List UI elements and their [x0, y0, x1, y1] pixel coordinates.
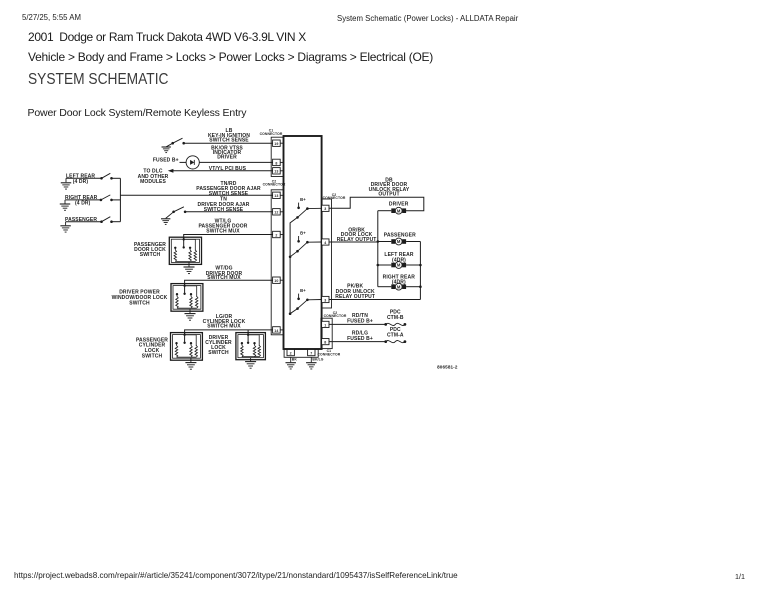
svg-text:M: M [397, 263, 401, 268]
ground passenger switch [65, 222, 67, 226]
passenger door lock switch [169, 237, 201, 264]
connector C1 bottom outline [284, 349, 318, 357]
svg-text:SWITCH: SWITCH [208, 350, 229, 356]
svg-text:(4 DR): (4 DR) [73, 179, 89, 185]
wire BK/OR VTSS indicator driver [199, 161, 272, 163]
wire WT/LG passenger door switch mux [184, 235, 273, 240]
print footer url [14, 571, 458, 580]
svg-text:CONNECTOR: CONNECTOR [324, 314, 347, 318]
pin 8 C2 right [322, 339, 329, 345]
pin 3 C2 right [322, 205, 329, 211]
svg-text:SWITCH MUX: SWITCH MUX [207, 324, 241, 330]
pin 2 bottom [287, 350, 294, 356]
svg-text:SWITCH: SWITCH [129, 301, 150, 307]
svg-text:CONNECTOR: CONNECTOR [317, 353, 340, 357]
wire LB key-in ignition switch sense [184, 142, 273, 144]
wire RD/TN fused B+ [329, 323, 386, 325]
svg-text:SWITCH MUX: SWITCH MUX [206, 229, 240, 235]
pin 4 C2 right [322, 239, 329, 245]
ground driver door ajar switch [166, 212, 174, 219]
svg-text:2: 2 [275, 233, 277, 237]
svg-text:12: 12 [274, 211, 278, 215]
ground right rear switch [64, 200, 66, 204]
driver power window/door lock switch [171, 284, 203, 312]
svg-text:SWITCH: SWITCH [142, 354, 163, 360]
svg-text:1: 1 [324, 323, 326, 327]
svg-text:FUSED B+: FUSED B+ [347, 319, 373, 325]
diagram subtitle [28, 107, 247, 119]
motor passenger door lock [378, 241, 392, 243]
svg-text:14: 14 [274, 329, 278, 333]
svg-text:10: 10 [274, 279, 278, 283]
svg-text:8: 8 [275, 161, 277, 165]
wire LG/OR cylinder lock switch mux [185, 330, 273, 335]
connector C2 right outline upper [322, 199, 332, 308]
connector C2 left outline [271, 190, 283, 335]
svg-text:VT/YL PCI BUS: VT/YL PCI BUS [209, 166, 247, 172]
pin 19 [273, 140, 281, 146]
wire TN driver door ajar switch sense [185, 211, 273, 213]
svg-text:B+: B+ [300, 197, 306, 202]
svg-text:2: 2 [290, 352, 292, 356]
svg-text:BK/LG: BK/LG [312, 358, 323, 362]
svg-text:CTM-B: CTM-B [387, 315, 404, 321]
wire BK ground [290, 357, 292, 362]
wire DB driver door unlock relay output [329, 197, 424, 210]
wire motor left bus [377, 211, 379, 287]
motor left rear door lock [378, 264, 392, 266]
module central timer module [284, 136, 322, 349]
svg-text:FUSED B+: FUSED B+ [153, 158, 179, 164]
svg-text:DRIVER: DRIVER [389, 202, 409, 208]
print header date [22, 13, 81, 22]
svg-text:3: 3 [324, 298, 326, 302]
ground driver power window/door lock switch [189, 309, 191, 313]
svg-text:SWITCH: SWITCH [140, 252, 161, 258]
pin 1 C2 right [322, 321, 329, 327]
wire TN/RD to pin 13 C2 [120, 194, 272, 196]
svg-text:M: M [397, 208, 401, 213]
switch key-in ignition [171, 142, 174, 145]
svg-text:M: M [397, 239, 401, 244]
svg-text:13: 13 [274, 170, 278, 174]
wire WT/DG driver door switch mux [185, 280, 273, 285]
svg-text:(4 DR): (4 DR) [75, 201, 91, 207]
pin 7 bottom [308, 350, 315, 356]
svg-text:M: M [397, 284, 401, 289]
ground module BK/LG [306, 362, 316, 364]
svg-text:SWITCH SENSE: SWITCH SENSE [209, 191, 249, 197]
switch driver door ajar [172, 211, 175, 214]
motor driver door lock [378, 210, 392, 212]
wire internal B+ bus [290, 217, 297, 313]
breadcrumb [28, 50, 433, 64]
svg-text:FUSED B+: FUSED B+ [347, 336, 373, 342]
svg-text:19: 19 [274, 142, 278, 146]
ground passenger cylinder lock switch [190, 358, 192, 362]
svg-text:4: 4 [324, 241, 326, 245]
pin 10 C2 [273, 277, 281, 283]
svg-text:SWITCH SENSE: SWITCH SENSE [209, 138, 249, 144]
fuse CTM-A [384, 340, 387, 343]
svg-text:DRIVER: DRIVER [217, 155, 237, 161]
ground module BK [285, 362, 295, 364]
ground driver cylinder lock switch [250, 358, 252, 362]
svg-text:SWITCH MUX: SWITCH MUX [207, 275, 241, 281]
motor right rear door lock [378, 286, 392, 288]
pin 14 C2 [273, 327, 281, 333]
svg-text:SWITCH SENSE: SWITCH SENSE [204, 207, 244, 213]
wire VT/YL PCI bus with arrow [168, 169, 174, 173]
svg-text:3: 3 [324, 207, 326, 211]
svg-text:8: 8 [324, 341, 326, 345]
svg-text:B+: B+ [300, 231, 306, 236]
svg-text:CONNECTOR: CONNECTOR [263, 183, 286, 187]
svg-text:CONNECTOR: CONNECTOR [260, 132, 283, 136]
passenger cylinder lock switch [171, 333, 203, 361]
pin 3 C2 right lower [322, 296, 329, 302]
wire ajar switch bus [119, 178, 121, 221]
pin 13 C2 [273, 192, 281, 198]
ground left rear switch [65, 178, 67, 182]
svg-text:CONNECTOR: CONNECTOR [323, 196, 346, 200]
ground key-in switch [166, 143, 173, 147]
connector C2 right outline lower [321, 318, 332, 348]
ground passenger door lock switch [188, 263, 190, 267]
print footer page number [735, 572, 745, 581]
section heading [28, 71, 168, 89]
svg-text:PASSENGER: PASSENGER [384, 232, 416, 238]
svg-text:13: 13 [274, 194, 278, 198]
svg-text:BK: BK [292, 358, 298, 362]
wire PK/BK door unlock relay output [329, 299, 420, 301]
pin 13 [273, 168, 281, 174]
wire OR/BK door lock relay output [329, 241, 378, 243]
page title vehicle [28, 30, 306, 44]
pin 2 C2 [273, 231, 281, 237]
pin 12 C2 [273, 209, 281, 215]
svg-text:806581-2: 806581-2 [437, 365, 458, 370]
print header title [337, 14, 518, 23]
svg-text:CTM-A: CTM-A [387, 333, 404, 339]
svg-text:7: 7 [310, 352, 312, 356]
diode VTSS indicator [180, 161, 187, 163]
svg-text:MODULES: MODULES [140, 179, 166, 185]
fuse CTM-B [384, 323, 387, 326]
driver cylinder lock switch [236, 333, 266, 360]
wire BK/LG ground [310, 357, 312, 362]
svg-text:B+: B+ [300, 288, 306, 293]
pin 8 [273, 159, 281, 165]
wire RD/LG fused B+ [329, 341, 386, 343]
connector C1 left outline [271, 137, 283, 176]
wire motor right bus [419, 242, 421, 300]
